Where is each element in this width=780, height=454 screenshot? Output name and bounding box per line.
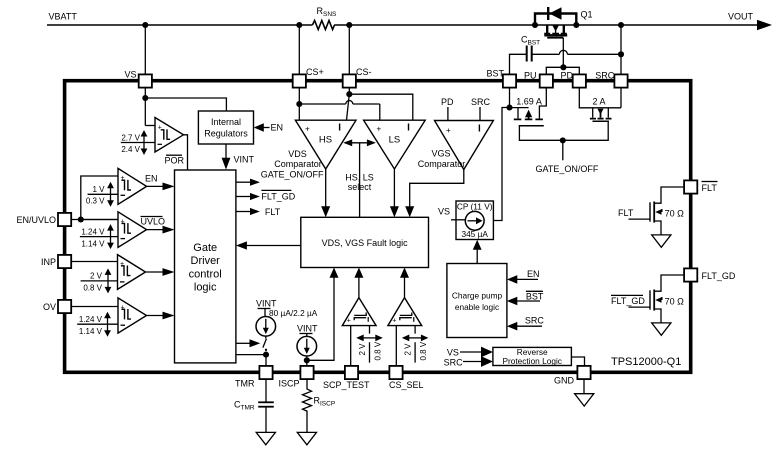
switch TMR — [263, 336, 267, 351]
wire GND pin to ground — [583, 379, 585, 394]
transistor pull-down driver FET — [579, 88, 621, 121]
signal HS,LS select double arrow — [343, 139, 376, 146]
pin VS — [124, 70, 151, 88]
wire CS+ internal riser — [298, 88, 300, 120]
signal CS_SEL output into fault logic — [400, 268, 409, 298]
svg-text:GATE_ON/OFF: GATE_ON/OFF — [261, 169, 324, 179]
svg-text:+: + — [392, 318, 396, 325]
signal SRC into charge pump logic — [507, 315, 545, 330]
svg-text:FLT_GD: FLT_GD — [702, 271, 736, 281]
wire CS- internal riser — [348, 88, 350, 94]
signal OV output arrow — [147, 312, 175, 320]
junction dot Q1 right — [573, 22, 579, 28]
wire BST to CBST — [510, 54, 527, 74]
label RSNS — [317, 6, 338, 18]
svg-text:UVLO: UVLO — [141, 217, 166, 227]
svg-text:2.4 V: 2.4 V — [121, 145, 140, 154]
label 2 V / 0.8 V CS_SEL — [402, 326, 429, 363]
svg-text:ISCP: ISCP — [320, 401, 335, 408]
label CBST — [521, 35, 540, 47]
pin TMR — [235, 366, 273, 389]
svg-text:Protection Logic: Protection Logic — [502, 356, 562, 366]
pin ISCP — [278, 366, 313, 389]
signal LS output into fault logic — [390, 169, 399, 217]
block Gate Driver control logic — [175, 170, 236, 363]
transistor FLT output FET — [629, 187, 685, 235]
svg-text:1 V: 1 V — [92, 185, 105, 194]
svg-text:PD: PD — [441, 97, 454, 107]
label 2 V threshold INP — [81, 268, 118, 293]
svg-text:FLT_GD: FLT_GD — [261, 192, 295, 202]
svg-text:VGS: VGS — [431, 148, 450, 158]
svg-text:80 µA/2.2 µA: 80 µA/2.2 µA — [269, 308, 318, 318]
label FLT_GD gate (active low) — [611, 295, 645, 306]
svg-text:logic: logic — [194, 281, 217, 293]
wire Q1 gate — [562, 38, 564, 68]
junction dot Q1 left — [532, 22, 538, 28]
junction dot CS- internal — [346, 91, 352, 97]
pin CS- — [343, 67, 372, 88]
svg-text:Comparator: Comparator — [418, 159, 466, 169]
svg-text:SRC: SRC — [471, 97, 491, 107]
wire VS to Internal Regulators — [145, 98, 226, 111]
svg-text:TPS12000-Q1: TPS12000-Q1 — [611, 356, 681, 368]
op-amp CS_SEL comparator — [388, 298, 422, 326]
pin CS+ — [293, 67, 324, 88]
transistor FLT_GD output FET — [629, 275, 685, 323]
signal FLT_GD output (active low) — [236, 190, 296, 201]
svg-text:FLT: FLT — [702, 183, 718, 193]
wire CS+ to LS + input with hop — [299, 101, 380, 121]
svg-text:control: control — [189, 269, 222, 281]
wire HS,LS select to fault logic — [359, 143, 361, 218]
op-amp SCP_TEST comparator — [342, 298, 376, 326]
svg-text:Driver: Driver — [191, 255, 221, 267]
svg-text:INP: INP — [41, 257, 56, 267]
signal EN into Internal Regulators — [254, 123, 283, 133]
svg-text:CS-: CS- — [356, 67, 372, 77]
svg-text:VS: VS — [438, 207, 450, 217]
svg-text:SRC: SRC — [525, 315, 545, 325]
signal VINT arrow into Gate Driver — [222, 144, 255, 170]
wire CBST to SRC node with hop — [532, 50, 621, 54]
wire SCP_TEST pin to comparator — [350, 326, 352, 366]
op-amp OV comparator — [118, 298, 147, 333]
wire VS pin internal riser — [144, 88, 146, 126]
label Q1 — [581, 10, 593, 20]
junction dot ISCP — [304, 357, 310, 363]
pin PD — [561, 71, 586, 88]
transistor Q1 MOSFET symbol — [544, 25, 567, 38]
wire POR output — [184, 135, 188, 170]
svg-text:VOUT: VOUT — [728, 12, 754, 22]
svg-text:2 V: 2 V — [90, 272, 103, 281]
signal VS into reverse protection — [447, 347, 493, 358]
wire CS- riser top — [348, 25, 350, 74]
svg-text:+: + — [347, 318, 351, 325]
pin OV — [43, 300, 71, 313]
junction dot SRC net — [618, 51, 624, 57]
signal fault logic to gate driver — [236, 241, 301, 249]
svg-text:TMR: TMR — [235, 379, 255, 389]
label 2.7 V threshold — [121, 130, 155, 155]
svg-text:0.3 V: 0.3 V — [86, 197, 105, 206]
junction dot CS+ rail — [296, 22, 302, 28]
junction dot BST internal — [506, 104, 512, 110]
wire VS to POR input — [145, 125, 155, 127]
wire SRC riser top — [620, 25, 622, 74]
label SRC input VGS — [471, 97, 491, 121]
wire GATE_ON/OFF stub — [536, 140, 599, 174]
ground GND — [575, 394, 594, 406]
pin GND — [554, 366, 591, 386]
svg-text:VS: VS — [124, 70, 136, 80]
svg-text:0.8 V: 0.8 V — [419, 341, 428, 360]
junction dot CS+ internal — [296, 101, 302, 107]
svg-text:CP (11 V): CP (11 V) — [457, 202, 493, 212]
wire VS riser — [144, 25, 146, 74]
label VGS Comparator — [418, 148, 466, 169]
svg-text:EN: EN — [145, 174, 158, 184]
svg-text:EN/UVLO: EN/UVLO — [16, 215, 56, 225]
op-amp POR comparator — [155, 118, 184, 153]
svg-text:VBATT: VBATT — [49, 12, 78, 22]
svg-text:+: + — [377, 125, 382, 134]
wire ISCP source to pin — [306, 356, 308, 366]
svg-text:Internal: Internal — [211, 117, 241, 127]
label 2 V / 0.8 V SCP_TEST — [356, 326, 383, 363]
signal VGS output into fault logic — [405, 170, 464, 218]
svg-text:POR: POR — [165, 156, 185, 166]
label UVLO (active low) — [141, 217, 166, 227]
wire PU/PD gate loop — [546, 67, 579, 74]
IC outer box — [65, 81, 691, 373]
op-amp HS comparator — [295, 120, 356, 169]
label 1.24 V threshold UVLO — [80, 224, 118, 249]
signal SRC into reverse protection — [444, 356, 493, 367]
svg-text:BST: BST — [486, 68, 504, 78]
node VBATT — [49, 12, 78, 22]
svg-text:Gate: Gate — [193, 242, 217, 254]
label PD input VGS — [441, 97, 454, 121]
svg-text:SCP_TEST: SCP_TEST — [323, 380, 370, 390]
wire CS- to LS - input — [349, 94, 413, 120]
block Reverse Protection Logic — [493, 347, 572, 366]
current source ISCP — [297, 336, 317, 356]
svg-text:0.8 V: 0.8 V — [83, 284, 102, 293]
svg-text:1.69 A: 1.69 A — [516, 96, 542, 106]
label POR — [165, 155, 185, 166]
svg-text:Q1: Q1 — [581, 10, 593, 20]
signal FLT output — [236, 207, 281, 217]
label VINT TMR source — [256, 298, 277, 316]
svg-text:GATE_ON/OFF: GATE_ON/OFF — [536, 164, 599, 174]
signal EN output arrow — [145, 174, 175, 191]
pin BST — [486, 68, 516, 87]
svg-text:CS_SEL: CS_SEL — [389, 380, 424, 390]
svg-text:SRC: SRC — [444, 357, 464, 367]
label TPS12000-Q1 — [611, 356, 681, 368]
op-amp INP comparator — [118, 255, 146, 290]
wire CS_SEL pin to comparator — [395, 326, 397, 366]
svg-text:ISCP: ISCP — [278, 379, 299, 389]
svg-text:Comparator: Comparator — [274, 159, 322, 169]
pin CS_SEL — [389, 366, 424, 390]
wire gate driver to TMR node — [236, 354, 266, 356]
pin PU — [524, 71, 553, 88]
svg-text:LS: LS — [389, 135, 401, 146]
wire VBATT rail — [47, 24, 757, 26]
svg-text:0.8 V: 0.8 V — [374, 341, 383, 360]
label 2 A — [593, 96, 606, 106]
transistor Q1 body diode loop — [535, 14, 576, 26]
pin SCP_TEST — [323, 366, 370, 390]
capacitor CBST — [527, 46, 532, 62]
resistor RSNS — [312, 21, 334, 30]
svg-text:PD: PD — [561, 71, 574, 81]
signal charge pump enable to CP — [473, 240, 482, 264]
svg-text:enable logic: enable logic — [455, 302, 499, 312]
svg-text:OV: OV — [43, 302, 56, 312]
label VDS Comparator — [274, 149, 322, 169]
signal SCP_TEST output into fault logic — [354, 268, 363, 298]
label HS, LS select — [345, 172, 374, 192]
pin INP — [41, 255, 71, 268]
svg-text:Regulators: Regulators — [204, 129, 248, 139]
wire OV comparator input — [71, 306, 118, 308]
wire CS- to HS - input — [347, 94, 350, 120]
wire to EN comparator — [81, 176, 118, 220]
svg-text:VINT: VINT — [234, 155, 255, 165]
svg-text:VDS, VGS Fault logic: VDS, VGS Fault logic — [322, 238, 409, 248]
svg-text:2.7 V: 2.7 V — [121, 133, 140, 142]
junction dot Q1 gate/PU/PD — [560, 64, 566, 70]
wire reverse protection to GND pin — [571, 357, 584, 366]
junction dot EN/UVLO — [78, 216, 84, 222]
label 70 ohm FLT — [665, 208, 685, 218]
op-amp LS comparator — [364, 120, 426, 169]
wire CS+ riser top — [298, 25, 300, 74]
diode D1 of Q1 — [548, 7, 561, 20]
label 1 V threshold — [86, 182, 118, 207]
label VS into CP — [438, 207, 465, 220]
svg-text:PU: PU — [524, 71, 537, 81]
junction dot VS internal — [142, 95, 148, 101]
svg-text:TMR: TMR — [241, 405, 255, 412]
svg-text:FLT: FLT — [618, 208, 634, 218]
wire UVLO comparator input — [81, 219, 118, 221]
signal UVLO output arrow — [147, 226, 175, 234]
svg-text:VDS: VDS — [288, 149, 307, 159]
svg-text:SRC: SRC — [595, 71, 615, 81]
pin FLT (active low) — [684, 180, 717, 193]
svg-text:EN: EN — [271, 123, 284, 133]
svg-text:VS: VS — [447, 348, 459, 358]
op-amp VGS comparator — [435, 121, 494, 170]
wire driver gates to GATE_ON/OFF — [519, 121, 608, 140]
node VOUT — [728, 12, 754, 22]
signal HS output into fault logic — [321, 169, 330, 217]
svg-text:BST: BST — [526, 292, 544, 302]
svg-text:345 µA: 345 µA — [461, 229, 488, 239]
ground RISCP — [297, 432, 316, 444]
svg-text:HS: HS — [319, 135, 332, 146]
label 70 ohm FLT_GD — [665, 296, 685, 306]
signal BST into charge pump logic (active low) — [507, 291, 544, 305]
svg-text:Charge pump: Charge pump — [452, 291, 503, 301]
ground FLT FET — [652, 235, 671, 247]
block VDS, VGS Fault logic — [301, 217, 429, 267]
block Charge pump enable logic — [447, 264, 507, 338]
transistor pull-up driver FET — [510, 88, 547, 126]
svg-text:+: + — [446, 126, 451, 135]
wire CP to BST node — [493, 108, 509, 221]
pin FLT_GD — [684, 268, 736, 281]
wire BST internal riser — [509, 88, 511, 108]
capacitor CTMR — [234, 379, 274, 432]
junction dot CS- rail — [346, 22, 352, 28]
svg-text:1.24 V: 1.24 V — [79, 315, 103, 324]
label 1.24 V threshold OV — [77, 312, 118, 337]
arrow VOUT — [757, 20, 772, 30]
label 1.69 A — [516, 96, 542, 106]
svg-text:70 Ω: 70 Ω — [665, 208, 685, 218]
svg-text:+: + — [305, 125, 310, 134]
resistor RISCP — [303, 379, 336, 432]
pin SRC — [595, 71, 627, 88]
signal EN into charge pump logic — [507, 269, 540, 284]
svg-text:FLT: FLT — [265, 207, 281, 217]
svg-text:2 A: 2 A — [593, 96, 606, 106]
block CP (11 V) charge pump source — [456, 201, 493, 240]
label FLT gate — [618, 208, 634, 218]
svg-text:CS+: CS+ — [306, 67, 324, 77]
signal switch control arrow — [236, 339, 260, 347]
svg-text:BST: BST — [528, 40, 541, 47]
junction dot VOUT/SRC — [618, 22, 624, 28]
svg-text:2 V: 2 V — [358, 343, 367, 356]
block Internal Regulators — [198, 111, 253, 144]
pin EN/UVLO — [16, 213, 71, 226]
signal INP output arrow — [146, 268, 175, 276]
svg-text:SNS: SNS — [323, 11, 337, 18]
op-amp UVLO comparator — [118, 212, 147, 248]
svg-text:VINT: VINT — [256, 298, 277, 308]
label VINT ISCP source — [297, 323, 318, 336]
wire ISCP to fault logic — [307, 268, 339, 361]
svg-text:FLT_GD: FLT_GD — [611, 296, 645, 306]
op-amp EN comparator — [118, 168, 147, 204]
junction dot TMR — [263, 352, 269, 358]
junction dot gate wire — [560, 137, 566, 143]
svg-text:1.24 V: 1.24 V — [81, 227, 105, 236]
signal GATE_ON/OFF output — [236, 169, 324, 186]
svg-text:1.14 V: 1.14 V — [81, 239, 105, 248]
svg-text:EN: EN — [527, 269, 540, 279]
ground CTMR — [256, 432, 275, 444]
svg-text:VINT: VINT — [297, 323, 318, 333]
svg-text:1.14 V: 1.14 V — [79, 327, 103, 336]
current source 80uA/2.2uA — [256, 308, 318, 336]
junction dot VS rail — [142, 22, 148, 28]
wire INP comparator input — [71, 261, 117, 263]
svg-text:GND: GND — [554, 376, 575, 386]
ground FLT_GD FET — [652, 323, 671, 335]
svg-text:70 Ω: 70 Ω — [665, 296, 685, 306]
svg-text:2 V: 2 V — [404, 343, 413, 356]
wire TMR node to pin — [265, 355, 267, 366]
wire EN/UVLO pin to node — [71, 219, 118, 221]
